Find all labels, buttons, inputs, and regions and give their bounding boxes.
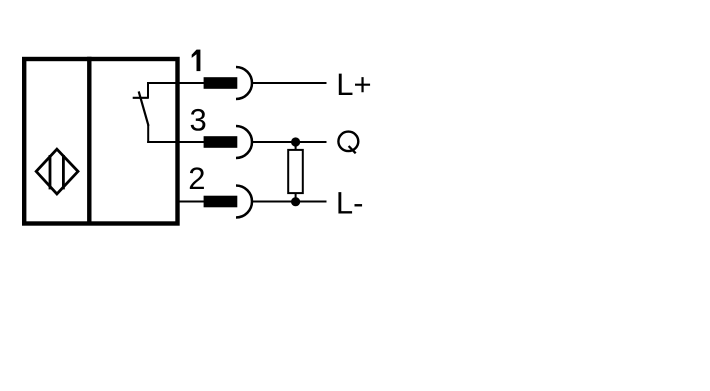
load resistor between Q and L- xyxy=(288,142,303,202)
switch contact S (normally open) xyxy=(133,82,149,143)
pin 2 contact (plug and socket) xyxy=(204,186,252,218)
inductive sensor symbol (diamond with two bars) xyxy=(36,149,78,194)
wire: pin 1 to L+ xyxy=(252,82,327,84)
pin 3 contact (plug and socket) xyxy=(204,126,252,158)
wire: switch to pin 1 xyxy=(147,82,205,84)
pin label 1 xyxy=(192,50,201,72)
junction dot on L- line xyxy=(291,197,300,206)
terminal label Q xyxy=(338,132,358,154)
junction dot on Q line xyxy=(291,137,300,146)
svg-text:L-: L- xyxy=(336,185,364,220)
wire: body to pin 2 xyxy=(176,201,205,203)
wire: pin 3 to Q xyxy=(252,141,327,143)
pin 1 contact (plug and socket) xyxy=(204,67,252,99)
svg-text:3: 3 xyxy=(190,103,207,138)
wire: pin 2 to L- xyxy=(252,201,327,203)
svg-text:2: 2 xyxy=(188,161,205,196)
wire: switch to pin 3 xyxy=(147,141,204,143)
sensor body divider xyxy=(87,57,91,225)
sensor body outline xyxy=(24,59,177,224)
svg-text:L+: L+ xyxy=(336,67,371,102)
